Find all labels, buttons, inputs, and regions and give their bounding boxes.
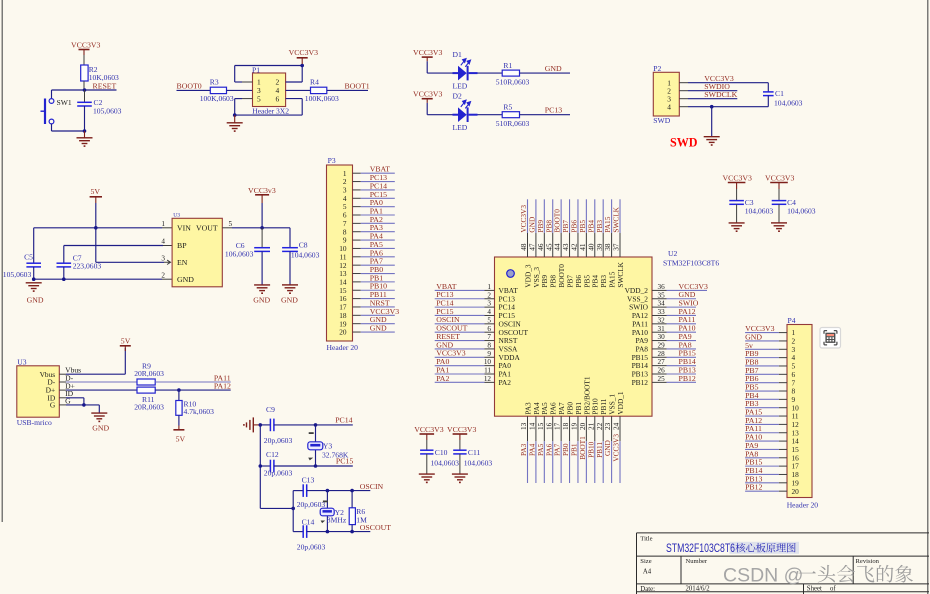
- svg-text:P3: P3: [328, 156, 336, 165]
- wire P4 pin 20: [745, 490, 779, 492]
- svg-text:5V: 5V: [121, 337, 131, 346]
- svg-text:C11: C11: [468, 448, 481, 457]
- wire: [83, 81, 85, 90]
- svg-text:U2: U2: [668, 249, 677, 258]
- wire VIN rail: [34, 227, 162, 229]
- power VCC3V3 (C11): [447, 425, 477, 440]
- node: [233, 113, 237, 117]
- svg-text:20: 20: [792, 487, 800, 496]
- wire P4 pin 3: [745, 348, 779, 350]
- wire BP: [163, 245, 172, 247]
- wire U2 pin 45: [552, 199, 554, 233]
- wire U2 pin 42: [577, 199, 579, 233]
- svg-text:5: 5: [257, 94, 261, 103]
- svg-text:STM32F103C8T6: STM32F103C8T6: [663, 258, 719, 267]
- svg-text:PA12: PA12: [214, 382, 231, 391]
- svg-text:STM32F103C8T6: STM32F103C8T6: [666, 541, 735, 555]
- svg-text:P2: P2: [653, 64, 661, 73]
- ground (crystal, rotated): [244, 417, 259, 432]
- wire P3 pin 6: [353, 214, 361, 216]
- wire U2 pin 25: [652, 381, 667, 383]
- wire U2 pin 11: [435, 373, 485, 375]
- wire U2 pin 26: [652, 373, 667, 375]
- svg-text:SWCLK: SWCLK: [612, 206, 621, 232]
- svg-text:9: 9: [487, 350, 491, 358]
- wire P4 pin 17: [745, 465, 779, 467]
- wire U2 pin 36: [652, 289, 667, 291]
- svg-text:VDD_1: VDD_1: [616, 391, 625, 414]
- svg-text:U3: U3: [17, 357, 26, 366]
- wire U2 pin 23: [611, 416, 613, 441]
- svg-text:104,0603: 104,0603: [774, 98, 803, 107]
- wire U2 pin 1: [435, 289, 485, 291]
- wire P4 pin 4: [745, 357, 779, 359]
- wire P4 pin 5: [745, 365, 779, 367]
- svg-text:19: 19: [571, 422, 579, 430]
- wire P3 pin 7: [353, 222, 361, 224]
- svg-text:20R,0603: 20R,0603: [134, 403, 164, 412]
- svg-text:G: G: [50, 401, 56, 410]
- LED D1: [453, 50, 478, 91]
- wire: [286, 89, 311, 91]
- switch SW1: [41, 98, 72, 124]
- svg-text:2014/6/2: 2014/6/2: [686, 586, 711, 593]
- LED D2: [453, 92, 478, 133]
- capacitor C9: [260, 405, 315, 445]
- capacitor C1: [763, 83, 803, 108]
- power 5V (pull-up, inverted): [173, 415, 185, 443]
- svg-text:of: of: [830, 586, 836, 593]
- power VCC3V3 (C4): [765, 174, 795, 189]
- svg-text:24: 24: [613, 422, 621, 430]
- wire pin2: [679, 90, 688, 92]
- svg-text:1: 1: [161, 220, 165, 228]
- wire P4 pin 11: [745, 415, 779, 417]
- wire: [51, 90, 53, 99]
- svg-text:6: 6: [276, 94, 280, 103]
- svg-text:15: 15: [537, 422, 545, 430]
- svg-text:R1: R1: [503, 61, 512, 70]
- svg-text:Header 3X2: Header 3X2: [252, 107, 289, 116]
- wire pin1: [679, 82, 688, 84]
- wire P4 pin 9: [745, 398, 779, 400]
- capacitor C10: [420, 440, 459, 474]
- svg-text:104,0603: 104,0603: [431, 459, 460, 468]
- svg-text:11: 11: [484, 367, 491, 375]
- wire U2 pin 37: [619, 199, 621, 233]
- wire: [427, 114, 452, 116]
- wire U2 pin 21: [594, 416, 596, 441]
- wire U2 pin 13: [527, 416, 529, 441]
- svg-text:5: 5: [487, 316, 491, 324]
- node: [326, 489, 330, 493]
- svg-text:48: 48: [520, 243, 528, 251]
- svg-text:VCC3V3: VCC3V3: [414, 425, 444, 434]
- svg-text:LED: LED: [453, 82, 468, 91]
- svg-text:41: 41: [579, 243, 587, 251]
- svg-text:4: 4: [667, 102, 671, 111]
- wire P3 pin 15: [353, 289, 361, 291]
- wire: [155, 389, 231, 391]
- resistor R2: [81, 65, 119, 82]
- wire U2 pin 4: [435, 314, 485, 316]
- wire P3 pin 13: [353, 273, 361, 275]
- svg-text:C12: C12: [266, 450, 279, 459]
- wire U2 pin 27: [652, 365, 667, 367]
- svg-text:5V: 5V: [91, 187, 101, 196]
- svg-text:SWCLK: SWCLK: [616, 261, 625, 287]
- node: [710, 105, 714, 109]
- svg-text:223,0603: 223,0603: [73, 261, 102, 270]
- wire P3 pin 12: [353, 264, 361, 266]
- svg-text:C9: C9: [266, 405, 275, 414]
- svg-text:VCC3V3: VCC3V3: [413, 89, 443, 98]
- svg-text:25: 25: [658, 375, 666, 383]
- wire P3 pin 20: [353, 331, 361, 333]
- capacitor C5: [3, 228, 41, 279]
- wire U2 pin 7: [435, 340, 485, 342]
- wire P3 pin 5: [353, 206, 361, 208]
- svg-text:12: 12: [484, 375, 492, 383]
- ground (SWD): [704, 136, 720, 138]
- svg-text:Title: Title: [640, 536, 652, 543]
- wire pin3: [679, 98, 688, 100]
- svg-text:3: 3: [161, 254, 165, 262]
- svg-text:39: 39: [596, 243, 604, 251]
- svg-text:Header 20: Header 20: [787, 501, 819, 510]
- wire EN tie: [95, 228, 97, 262]
- svg-text:OSCIN: OSCIN: [360, 482, 384, 491]
- svg-text:U3: U3: [173, 213, 180, 219]
- svg-text:Size: Size: [640, 558, 651, 565]
- wire P3 pin 8: [353, 231, 361, 233]
- svg-text:7: 7: [487, 333, 491, 341]
- svg-text:38: 38: [604, 243, 612, 251]
- svg-text:BOOT1: BOOT1: [345, 82, 370, 91]
- wire U2 pin 40: [594, 199, 596, 233]
- wire D-: [59, 381, 66, 383]
- svg-text:45: 45: [545, 243, 553, 251]
- power VCC3V3 (C10): [414, 425, 444, 440]
- svg-text:14: 14: [529, 422, 537, 430]
- node: [177, 388, 181, 392]
- sheet right border: [927, 0, 929, 594]
- wire P4 pin 1: [745, 332, 779, 334]
- node: [300, 64, 304, 68]
- wire P3 pin 17: [353, 306, 361, 308]
- capacitor C6: [225, 228, 270, 285]
- svg-text:VOUT: VOUT: [196, 223, 218, 232]
- svg-text:VCC3V3: VCC3V3: [447, 425, 477, 434]
- title block text: [640, 536, 879, 594]
- svg-text:BP: BP: [177, 241, 187, 250]
- svg-text:D1: D1: [453, 50, 462, 59]
- svg-text:17: 17: [554, 422, 562, 430]
- wire P3 pin 4: [353, 197, 361, 199]
- svg-text:100K,0603: 100K,0603: [200, 94, 234, 103]
- svg-text:VCC3v3: VCC3v3: [248, 186, 276, 195]
- svg-text:4: 4: [487, 308, 491, 316]
- ground (C6): [253, 285, 270, 304]
- header P1 (Header 3X2): [252, 65, 289, 115]
- svg-text:30: 30: [658, 333, 666, 341]
- svg-text:21: 21: [587, 422, 595, 430]
- svg-text:10: 10: [484, 358, 492, 366]
- wire ground rail: [34, 278, 162, 280]
- svg-text:C14: C14: [302, 518, 315, 527]
- header P4 (Header 20): [787, 316, 819, 510]
- svg-text:C1: C1: [775, 89, 784, 98]
- wire U2 pin 19: [577, 416, 579, 441]
- node: [32, 277, 36, 281]
- usb connector U3 (USB-mrico): [17, 357, 60, 427]
- wire U2 pin 38: [611, 199, 613, 233]
- wire P4 pin 10: [745, 407, 779, 409]
- node: [260, 226, 264, 230]
- node reset junction: [83, 88, 87, 92]
- ground (regulator): [26, 283, 44, 305]
- sheet left border: [1, 0, 3, 522]
- wire U2 pin 22: [602, 416, 604, 441]
- svg-text:5V: 5V: [176, 434, 186, 443]
- svg-text:VCC3V3: VCC3V3: [612, 434, 621, 462]
- svg-text:510R,0603: 510R,0603: [496, 77, 530, 86]
- wire P4 pin 19: [745, 482, 779, 484]
- svg-text:OSCOUT: OSCOUT: [360, 523, 391, 532]
- svg-text:CSDN @: CSDN @: [723, 564, 803, 586]
- node: [82, 403, 86, 407]
- svg-text:20p,0603: 20p,0603: [297, 500, 326, 509]
- svg-text:1: 1: [487, 283, 491, 291]
- resistor R5: [496, 103, 530, 129]
- power 5V (regulator input): [90, 187, 102, 203]
- ground (boot header): [227, 115, 243, 131]
- wire P4 pin 8: [745, 390, 779, 392]
- svg-text:13: 13: [520, 422, 528, 430]
- wire U2 pin 17: [560, 416, 562, 441]
- svg-text:Header 20: Header 20: [327, 343, 359, 352]
- svg-text:VIN: VIN: [177, 223, 191, 232]
- svg-text:16: 16: [545, 422, 553, 430]
- svg-text:22: 22: [596, 422, 604, 430]
- node: [83, 129, 87, 133]
- svg-text:GND: GND: [253, 295, 270, 304]
- svg-text:GND: GND: [92, 423, 109, 432]
- wire: [520, 72, 571, 74]
- wire P3 pin 14: [353, 281, 361, 283]
- wire U2 pin 35: [652, 298, 667, 300]
- svg-text:28: 28: [658, 350, 666, 358]
- svg-text:VCC3V3: VCC3V3: [71, 41, 101, 50]
- svg-text:LED: LED: [453, 123, 468, 132]
- capacitor C14: [293, 518, 327, 552]
- svg-text:C13: C13: [302, 476, 315, 485]
- wire Vbus: [59, 373, 66, 375]
- wire: [478, 114, 503, 116]
- svg-text:6: 6: [487, 325, 491, 333]
- svg-text:2: 2: [161, 271, 165, 279]
- power VCC3V3 (boot header): [289, 48, 319, 64]
- capacitor C12: [260, 450, 315, 478]
- node: [326, 530, 330, 534]
- wire: [177, 89, 211, 91]
- power VCC3v3 (regulator output): [248, 186, 276, 228]
- svg-text:104,0603: 104,0603: [787, 206, 816, 215]
- wire P3 pin 10: [353, 247, 361, 249]
- crystal Y2: [320, 491, 347, 532]
- wire P4 pin 13: [745, 432, 779, 434]
- resistor R6: [349, 491, 367, 532]
- wire U2 pin 28: [652, 356, 667, 358]
- wire U2 pin 29: [652, 348, 667, 350]
- wire U2 pin 43: [569, 199, 571, 233]
- svg-text:D2: D2: [453, 92, 462, 101]
- mcu U2 STM32F103C8T6 body: [495, 249, 720, 416]
- power VCC3V3 (reset pull-up): [71, 41, 101, 56]
- wire: [520, 114, 571, 116]
- power VCC3V3 (C3): [723, 174, 753, 189]
- wire: [155, 381, 231, 383]
- svg-text:100K,0603: 100K,0603: [305, 94, 339, 103]
- svg-text:Sheet: Sheet: [807, 586, 822, 593]
- svg-text:R4: R4: [310, 78, 319, 87]
- wire P3 pin 19: [353, 323, 361, 325]
- svg-text:SWDCLK: SWDCLK: [704, 90, 737, 99]
- svg-text:GND: GND: [177, 275, 194, 284]
- wire: [51, 124, 53, 131]
- power VCC3V3 (D1): [413, 48, 443, 73]
- svg-text:20p,0603: 20p,0603: [264, 436, 293, 445]
- wire U2 pin 5: [435, 323, 485, 325]
- wire P4 pin 6: [745, 373, 779, 375]
- node: [94, 226, 98, 230]
- resistor R9: [134, 362, 164, 385]
- svg-text:34: 34: [658, 300, 666, 308]
- node: [259, 464, 263, 468]
- svg-text:5: 5: [229, 220, 233, 228]
- wire P3 pin 3: [353, 189, 361, 191]
- wire U2 pin 33: [652, 314, 667, 316]
- wire OSCOUT: [327, 531, 370, 533]
- resistor R4: [305, 78, 339, 104]
- svg-text:SW1: SW1: [57, 98, 72, 107]
- wire P4 pin 7: [745, 382, 779, 384]
- svg-text:37: 37: [613, 243, 621, 251]
- wire U2 pin 31: [652, 331, 667, 333]
- resistor R11: [134, 387, 164, 412]
- node: [259, 423, 263, 427]
- svg-text:20: 20: [339, 328, 347, 337]
- CSDN watermark: [723, 564, 913, 586]
- svg-text:VCC3V3: VCC3V3: [723, 174, 753, 183]
- svg-text:35: 35: [658, 291, 666, 299]
- wire P3 pin 11: [353, 256, 361, 258]
- svg-text:EN: EN: [177, 258, 188, 267]
- svg-text:PB12: PB12: [679, 374, 696, 383]
- wire ground rail (crystals): [259, 425, 261, 509]
- svg-text:BOOT0: BOOT0: [177, 82, 202, 91]
- wire P3 pin 9: [353, 239, 361, 241]
- capacitor C4: [772, 189, 816, 223]
- svg-text:106,0603: 106,0603: [225, 249, 254, 258]
- title block frame: [637, 533, 930, 594]
- svg-text:31: 31: [658, 325, 666, 333]
- capacitor C13: [293, 476, 327, 510]
- svg-text:C2: C2: [94, 98, 103, 107]
- wire: [427, 72, 452, 74]
- svg-text:GND: GND: [545, 64, 562, 73]
- wire U2 pin 30: [652, 340, 667, 342]
- node: [291, 507, 295, 511]
- wire P3 pin 2: [353, 181, 361, 183]
- wire U2 pin 47: [535, 199, 537, 233]
- svg-text:Revision: Revision: [856, 558, 880, 565]
- svg-text:20R,0603: 20R,0603: [134, 369, 164, 378]
- wire U2 pin 10: [435, 365, 485, 367]
- wire U2 pin 16: [552, 416, 554, 441]
- wire U2 pin 12: [435, 381, 485, 383]
- svg-text:104,0603: 104,0603: [464, 459, 493, 468]
- wire U2 pin 24: [619, 416, 621, 441]
- svg-text:44: 44: [554, 243, 562, 251]
- svg-text:105,0603: 105,0603: [3, 270, 32, 279]
- svg-text:2: 2: [487, 291, 491, 299]
- wire D+: [59, 389, 66, 391]
- svg-text:104,0603: 104,0603: [745, 206, 774, 215]
- svg-text:23: 23: [604, 422, 612, 430]
- svg-text:GND: GND: [27, 295, 44, 304]
- wire P4 pin 15: [745, 448, 779, 450]
- power 5V (Vbus): [120, 337, 131, 351]
- svg-text:105,0603: 105,0603: [93, 107, 122, 116]
- ground (USB): [91, 413, 109, 432]
- svg-text:40: 40: [587, 243, 595, 251]
- wire U2 pin 44: [560, 199, 562, 233]
- wire: [316, 465, 353, 467]
- wire pin1 to VCC: [242, 81, 253, 83]
- ground (C4): [771, 222, 787, 224]
- wire P4 pin 2: [745, 340, 779, 342]
- wire U2 pin 18: [569, 416, 571, 441]
- wire U2 pin 48: [527, 199, 529, 233]
- svg-text:27: 27: [658, 358, 666, 366]
- svg-text:PC14: PC14: [335, 415, 352, 424]
- header P2 (SWD): [653, 64, 679, 125]
- svg-text:43: 43: [562, 243, 570, 251]
- wire: [711, 107, 713, 137]
- svg-text:33: 33: [658, 308, 666, 316]
- svg-text:4.7k,0603: 4.7k,0603: [184, 407, 215, 416]
- capacitor C3: [729, 189, 773, 223]
- wire P3 pin 18: [353, 314, 361, 316]
- capacitor C2: [77, 90, 121, 131]
- svg-text:GND: GND: [370, 324, 387, 333]
- svg-text:PC15: PC15: [336, 457, 353, 466]
- capacitor C7: [57, 253, 102, 279]
- resistor R10: [176, 390, 214, 416]
- svg-text:29: 29: [658, 342, 666, 350]
- image placeholder icon: [820, 328, 841, 349]
- wire: [227, 89, 253, 91]
- node: [314, 423, 318, 427]
- svg-text:G: G: [65, 396, 71, 405]
- svg-text:510R,0603: 510R,0603: [496, 119, 530, 128]
- svg-text:20p,0603: 20p,0603: [264, 468, 293, 477]
- svg-text:18: 18: [562, 422, 570, 430]
- svg-text:PB12: PB12: [632, 378, 649, 387]
- svg-text:Date:: Date:: [640, 586, 655, 593]
- ground (C11): [452, 473, 468, 475]
